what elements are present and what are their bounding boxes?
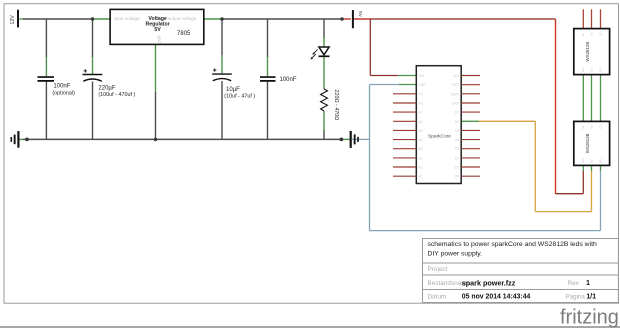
svg-text:12V: 12V [10,15,16,25]
svg-text:WS2812B: WS2812B [585,133,590,153]
resistor R1 [321,89,328,111]
svg-text:(10uf - 47uf ): (10uf - 47uf ) [224,94,255,100]
svg-text:Datum: Datum [428,294,447,301]
capacitor C3 10uF polarized [212,68,232,80]
junction on ground rail at left ground symbol [25,138,29,142]
svg-text:5V: 5V [590,159,594,163]
title block frame [423,239,619,303]
ground symbol left [11,131,20,148]
svg-text:5V: 5V [154,27,161,33]
svg-text:DO: DO [581,67,585,72]
svg-text:VIN: VIN [418,74,424,78]
svg-text:D2: D2 [455,156,459,160]
svg-text:D0: D0 [455,175,459,179]
svg-text:schematics to power sparkCore: schematics to power sparkCore and WS2812… [428,241,597,248]
wire 5V rail from regulator output [204,18,351,20]
svg-text:5V: 5V [357,11,363,18]
svg-text:DI: DI [581,33,585,36]
pin labels U3 top DI 5V GD [581,31,603,36]
wire data net orange: SparkCore D7 pin to WS2812B U4 DIN pin [461,121,591,211]
capacitor C2 220uF polarized [83,69,103,81]
pin stubs WS2812B U3 top [583,9,600,28]
svg-text:(100uf - 470uf ): (100uf - 470uf ) [98,92,135,98]
power symbol 5V [352,10,354,28]
wire branch through LED D1 and resistor R1 [323,19,325,139]
svg-text:05 nov 2014 14:43:44: 05 nov 2014 14:43:44 [462,294,531,301]
svg-text:RX: RX [418,102,423,106]
value label C2 220uF (100uf - 470uf) [98,86,135,99]
svg-text:220Ω - 470Ω: 220Ω - 470Ω [333,90,339,121]
value label C1 100nF (optional) [52,84,75,97]
pin labels U4 bottom DO 5V GD [581,158,603,163]
junction on 5V rail at C3 branch [220,17,224,21]
wire branch to capacitor C3 [221,19,223,139]
junction on ground rail at right ground symbol [340,138,344,142]
wire branch to capacitor C1 [45,19,47,139]
svg-text:220µF: 220µF [98,86,115,92]
wire green segment at SparkCore GND pin [399,84,416,86]
svg-text:DIY power supply.: DIY power supply. [428,251,483,258]
pin labels U4 top DI 5V GD [581,123,603,128]
svg-text:GND: GND [418,83,426,87]
value label C3 10uF (10uf - 47uf) [224,87,255,100]
capacitor C1 100nF [38,76,55,82]
svg-text:D1: D1 [455,166,459,170]
svg-text:input voltage: input voltage [114,16,140,21]
svg-text:1: 1 [586,278,590,287]
svg-text:D4: D4 [455,138,459,142]
svg-text:output voltage: output voltage [168,16,197,21]
svg-text:spark power.fzz: spark power.fzz [462,278,516,287]
wire ground rail [19,138,349,140]
svg-text:fritzing: fritzing [560,307,619,328]
svg-text:D7: D7 [455,111,459,115]
svg-text:A1: A1 [418,166,422,170]
IC U4 WS2812B body [574,121,610,165]
svg-text:7805: 7805 [177,31,191,37]
svg-text:5V: 5V [590,32,594,36]
svg-text:A3: A3 [418,147,422,151]
wire green links between WS2812B U3 and U4 [583,75,600,122]
voltage regulator U1 7805 body [110,9,204,44]
pin labels U3 bottom DO 5V GD [581,67,603,72]
power symbol 12V [17,10,19,28]
svg-text:RST: RST [452,83,459,87]
svg-text:1/1: 1/1 [586,292,596,301]
svg-text:WS2812B: WS2812B [585,42,590,62]
ground symbol rotated right [350,131,359,148]
svg-text:100nF: 100nF [280,77,297,83]
svg-text:TX: TX [418,92,423,96]
svg-text:100nF: 100nF [53,84,70,90]
svg-text:DO: DO [581,158,585,163]
junction on 5V rail at C2 branch [91,17,95,21]
junction on 5V rail at 5V symbol [340,17,344,21]
svg-text:D5: D5 [455,129,459,133]
wire green segment at WS2812B U4 VSS pin [600,165,602,171]
wire 12V rail from battery terminal to regulator input [19,18,110,20]
LED D1 [310,47,329,60]
svg-text:Project: Project [428,266,448,273]
svg-text:A5: A5 [418,129,422,133]
svg-text:D3: D3 [455,147,459,151]
wire regulator U1 gnd pin to ground rail [155,44,157,139]
svg-text:gnd: gnd [157,36,162,44]
svg-text:5V: 5V [590,125,594,129]
svg-text:VBAT: VBAT [451,92,460,96]
pin stubs SparkCore right [461,76,480,177]
wire green segment at SparkCore VIN pin [398,75,416,77]
title block Bestandsnaam row [428,278,591,287]
wire branch to capacitor C2 [92,19,94,139]
wire 5V net to SparkCore VIN pin [370,19,398,76]
svg-text:SparkCore: SparkCore [428,133,451,139]
title block description text [428,241,597,258]
svg-text:Rev: Rev [568,280,580,287]
wire 5V net down right side to WS2812B U4 VDD pin [556,19,584,194]
IC U3 WS2812B body [574,29,610,75]
junction on ground rail at regulator gnd [154,138,158,142]
svg-text:Pagina: Pagina [566,294,586,301]
label U1 Voltage Regulator 5V [145,16,169,33]
svg-text:A7: A7 [418,111,422,115]
capacitor C4 100nF [260,76,276,82]
svg-text:5V: 5V [590,68,594,72]
svg-text:D6: D6 [455,120,459,124]
IC U2 SparkCore body [416,66,461,184]
title block Datum row [428,292,597,301]
svg-text:A2: A2 [418,156,422,160]
wire GND net blue: ground symbol to SparkCore GND pin and WS2812B U4 VSS pin [352,85,601,231]
svg-text:A4: A4 [418,138,422,142]
pin labels SparkCore left VIN GND TX RX A7-A0 [418,74,426,179]
pin stubs SparkCore left TX RX A7-A0 [393,94,416,176]
svg-text:3V3: 3V3 [453,74,459,78]
wire 5V rail right of 5V symbol to WS2812B column [353,18,556,20]
wire branch to capacitor C4 [267,19,269,139]
svg-text:A0: A0 [418,175,422,179]
svg-text:GND: GND [452,102,460,106]
svg-text:DI: DI [581,126,585,129]
svg-text:A6: A6 [418,120,422,124]
svg-text:(optional): (optional) [52,90,75,96]
pin labels SparkCore right 3V3 RST VBAT GND D7-D0 [451,74,460,179]
svg-text:10µF: 10µF [226,87,240,93]
